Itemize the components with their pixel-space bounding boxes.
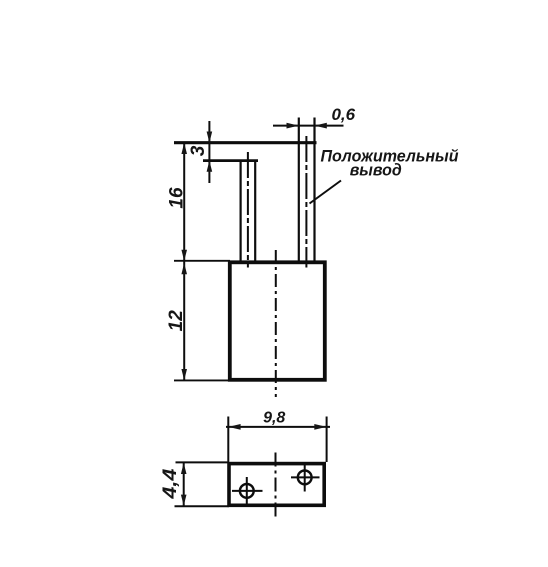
negative terminal crosshair horizontal [232,490,263,492]
arrow 0,6 left [287,123,299,129]
dimension line 9,8 [226,426,330,428]
positive lead right edge [313,118,315,263]
positive terminal hole [298,471,312,485]
svg-text:вывод: вывод [350,161,402,180]
extension line 9,8 left [227,417,229,463]
arrow 3 bottom [207,161,213,172]
arrow 12 bottom [181,369,187,380]
negative lead right edge [254,161,256,262]
dimension line 16 / 12 [183,143,185,381]
capacitor base (bottom view) [229,464,324,506]
leader line to positive lead [310,181,342,204]
arrow 9,8 right [314,424,326,430]
centerline, bottom view [275,453,277,518]
arrow 9,8 left [228,424,240,430]
arrow 4,4 top [181,463,187,474]
capacitor body (front view) [230,262,325,380]
negative terminal hole [240,484,254,498]
arrow 3 top [207,132,213,143]
dimension line 3 [208,121,210,183]
svg-text:3: 3 [188,145,209,156]
extension line 4,4 top [176,461,230,463]
svg-text:12: 12 [166,310,187,332]
arrow 12 top [181,263,187,274]
svg-text:16: 16 [167,187,188,209]
dimension line 0,6 [273,125,344,127]
arrow 16 bottom [181,250,187,261]
negative lead left edge [240,161,242,262]
dimension line 4,4 [183,462,185,506]
arrow 4,4 bottom [181,495,187,506]
negative lead centerline [247,152,249,268]
svg-text:0,6: 0,6 [331,105,355,124]
negative terminal crosshair vertical [246,477,248,505]
extension line 4,4 bottom [175,505,230,507]
positive terminal crosshair horizontal [291,476,320,478]
arrow 0,6 right [315,123,327,129]
extension line, top of positive lead level [174,141,317,144]
main centerline, front view [275,250,277,397]
svg-text:4,4: 4,4 [160,468,181,500]
extension line 9,8 right [326,417,328,463]
positive terminal crosshair vertical [304,464,306,492]
svg-text:9,8: 9,8 [263,410,285,427]
arrow 16 top [181,143,187,154]
positive lead centerline [305,136,307,268]
extension line, body bottom [174,379,230,381]
extension line, body top [174,260,230,262]
positive lead left edge [298,118,300,263]
negative lead top cap + extension line [203,159,258,162]
